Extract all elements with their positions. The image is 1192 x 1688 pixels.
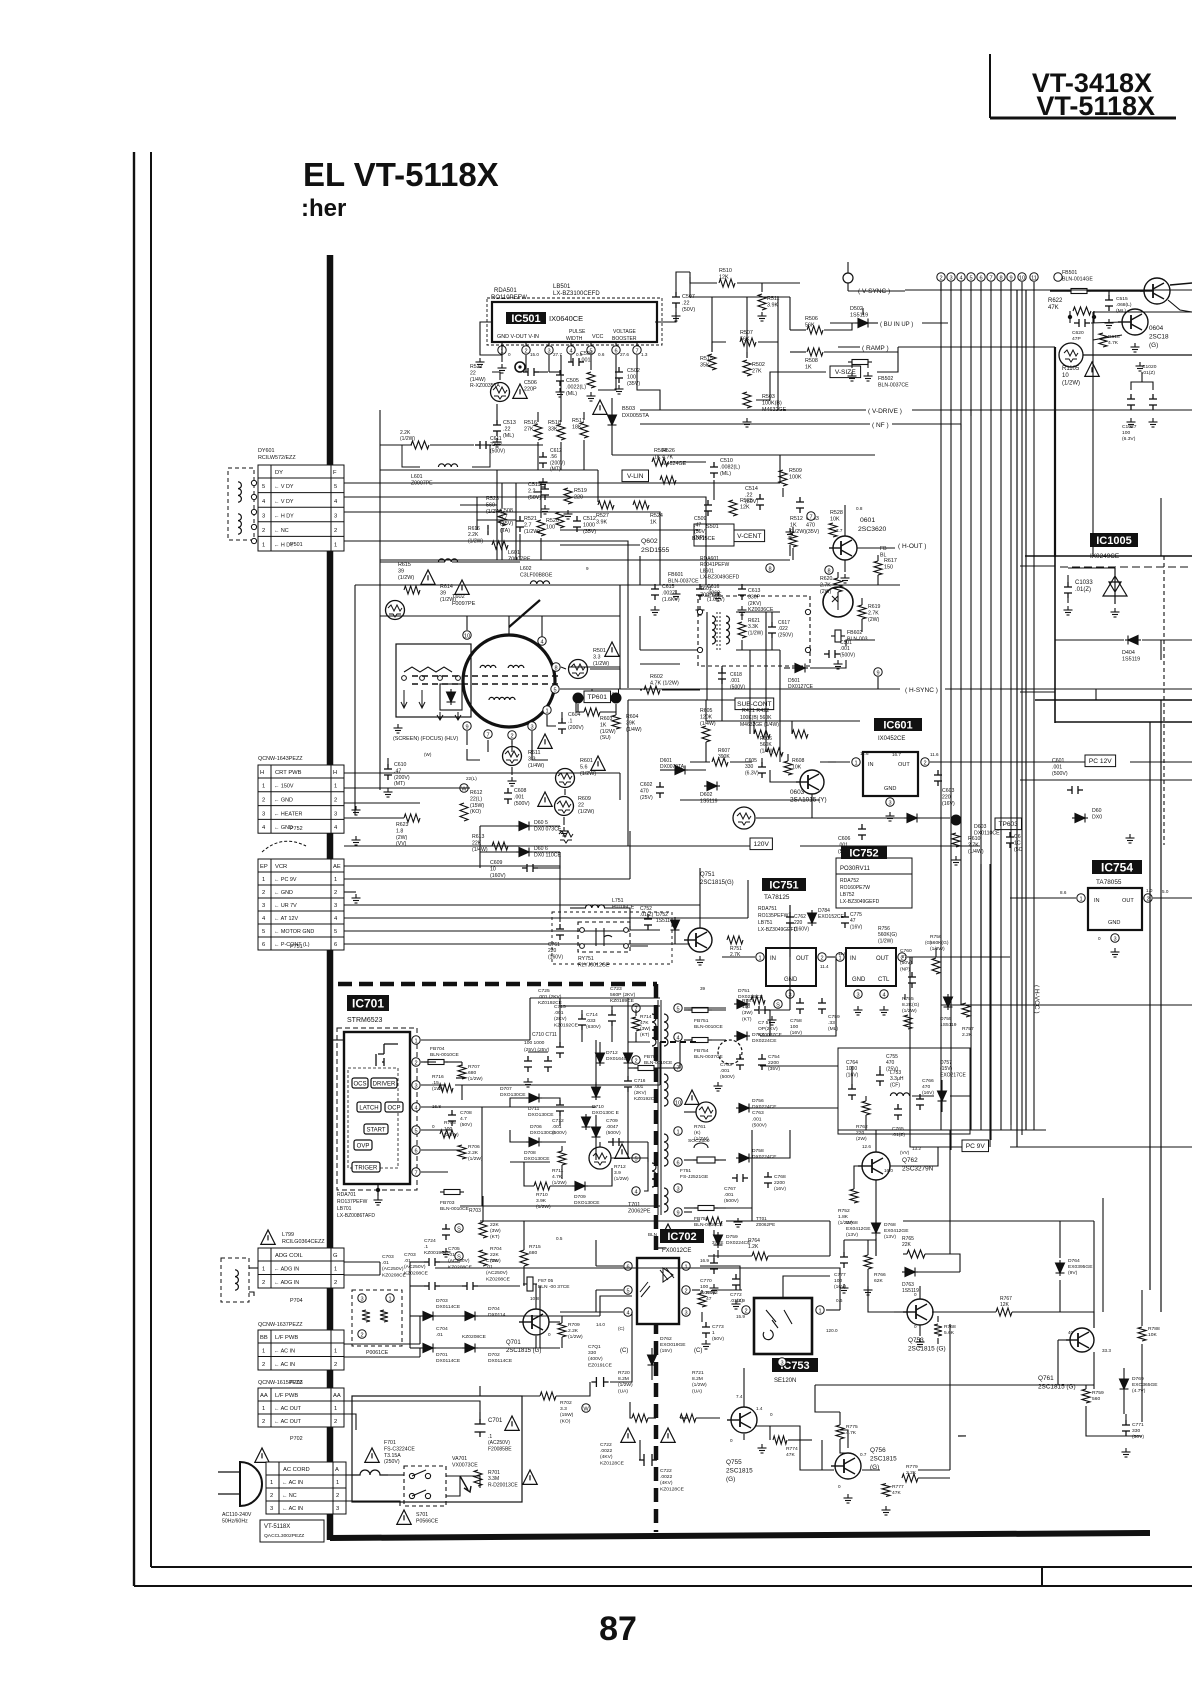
svg-text:GND: GND	[852, 977, 866, 983]
wire	[846, 640, 875, 646]
svg-text:BLN: BLN	[648, 1232, 657, 1237]
wire	[346, 1501, 400, 1506]
wire	[1093, 311, 1095, 323]
capacitor C772	[732, 1274, 740, 1290]
svg-text:87: 87	[599, 1610, 637, 1648]
svg-text:4: 4	[634, 1189, 637, 1195]
wire	[355, 584, 900, 586]
wire	[746, 297, 748, 358]
ground D1005	[1111, 608, 1120, 617]
focus taps	[402, 676, 407, 681]
svg-text:← AT 12V: ← AT 12V	[274, 916, 298, 922]
svg-text:0601: 0601	[860, 517, 875, 524]
ground reg1	[768, 1016, 777, 1025]
resistor R519	[564, 488, 572, 504]
ground R766	[864, 1286, 873, 1295]
resistor R707x	[456, 1077, 464, 1079]
svg-text:4: 4	[540, 639, 543, 645]
wire	[481, 1107, 483, 1206]
warning triangle AC	[255, 1448, 269, 1462]
p0061 pin2	[358, 1330, 366, 1339]
wire	[496, 470, 498, 560]
wire	[684, 1111, 696, 1113]
wire	[629, 908, 631, 930]
svg-text:EP: EP	[260, 864, 268, 870]
capacitor C515	[1105, 295, 1113, 311]
pwb thick bottom bar	[330, 1533, 1150, 1538]
wire	[920, 817, 950, 819]
wire	[862, 308, 864, 315]
ground C1020b	[1149, 418, 1158, 427]
wire	[713, 480, 715, 500]
IC702 pin6	[624, 1262, 632, 1271]
IC701 pin 5	[412, 1126, 420, 1135]
connector P701	[266, 1462, 346, 1514]
wire	[1055, 721, 1192, 723]
wire	[1141, 1290, 1143, 1326]
svg-text:16.9: 16.9	[700, 1258, 709, 1263]
wire	[1054, 556, 1056, 723]
resistor R502	[743, 360, 751, 376]
wire	[522, 1395, 540, 1397]
wire	[421, 1084, 446, 1086]
resistor R609b circle	[733, 807, 755, 829]
svg-text:100 1000: 100 1000	[524, 1040, 545, 1046]
wire	[639, 556, 641, 585]
diode D708	[526, 1138, 542, 1147]
svg-text:← AC IN: ← AC IN	[282, 1480, 303, 1486]
bus wire 4	[960, 282, 962, 1005]
svg-text:OCP: OCP	[387, 1106, 400, 1112]
wire	[903, 1220, 1060, 1222]
IC702 pin4	[624, 1308, 632, 1317]
wire	[560, 355, 562, 422]
T601 secondary	[726, 616, 730, 644]
resistor R611 circle	[503, 747, 522, 766]
ground right	[1136, 362, 1145, 371]
bus wire 6	[980, 282, 982, 1120]
svg-text:W: W	[583, 1406, 589, 1412]
wire	[344, 1261, 380, 1263]
ground R511	[758, 312, 767, 321]
svg-text:5: 5	[262, 929, 265, 935]
diode D768	[872, 1220, 881, 1236]
resistor R621	[738, 622, 746, 638]
wire	[560, 544, 640, 546]
transistor Q603	[796, 770, 824, 794]
svg-text:P702: P702	[290, 1436, 303, 1442]
T701 secondary pin 6	[674, 1158, 682, 1167]
reg1 pin1	[756, 953, 764, 962]
svg-text:IN: IN	[1094, 898, 1100, 904]
wire	[905, 289, 1192, 291]
capacitor C7 51	[754, 1006, 770, 1014]
svg-text:IC754: IC754	[1101, 860, 1133, 874]
svg-text:10.8: 10.8	[530, 1296, 539, 1301]
diode D763	[902, 1268, 918, 1277]
pin 9 hsync	[874, 668, 882, 677]
ground FB502b	[864, 372, 873, 381]
ferrite bead FB704	[428, 1060, 444, 1065]
svg-text:37CE: 37CE	[712, 1240, 724, 1245]
resistor R515	[708, 354, 716, 370]
ground C502	[615, 385, 624, 394]
svg-text:7: 7	[486, 732, 489, 738]
net label V-SIZE	[830, 366, 861, 378]
resistor R511	[758, 294, 766, 310]
wire	[435, 1268, 840, 1310]
svg-text:RO110PEFW: RO110PEFW	[491, 295, 527, 301]
test point TP601	[584, 691, 611, 703]
svg-text:5: 5	[334, 929, 337, 935]
wire	[511, 767, 513, 775]
svg-text:GND V-OUT V-IN: GND V-OUT V-IN	[497, 334, 539, 340]
IC701 pin 2	[412, 1058, 420, 1067]
bus wire 9	[1010, 282, 1012, 1125]
ground Q601	[841, 574, 850, 583]
wire	[844, 560, 846, 572]
ground reg2	[854, 1006, 863, 1015]
wire	[790, 351, 806, 353]
svg-text:A: A	[335, 1467, 339, 1473]
wire	[610, 1141, 648, 1143]
svg-text:8: 8	[999, 275, 1002, 281]
transformer T601 dashed box	[698, 596, 810, 666]
svg-text:2: 2	[360, 1332, 363, 1338]
capacitor C706	[462, 1282, 478, 1290]
wire	[421, 1039, 530, 1041]
capacitor C775	[841, 912, 849, 928]
warning triangle R609	[538, 792, 552, 806]
capacitor C710	[524, 1056, 532, 1072]
wire	[868, 1284, 894, 1312]
svg-text:120V: 120V	[753, 841, 769, 848]
wire	[1020, 691, 1055, 693]
wire	[542, 1141, 566, 1143]
wire	[715, 1159, 726, 1161]
capacitor C762	[786, 912, 794, 928]
transistor Q751	[684, 928, 712, 952]
wire	[538, 852, 560, 868]
diode D751	[734, 1000, 750, 1009]
svg-text:6: 6	[626, 1264, 629, 1270]
wire	[791, 721, 793, 734]
svg-text:( H-OUT ): ( H-OUT )	[898, 543, 926, 550]
svg-text:← NC: ← NC	[282, 1493, 297, 1499]
svg-text:3: 3	[856, 992, 859, 998]
svg-text:1: 1	[818, 1308, 821, 1314]
fuse F751	[697, 1157, 715, 1163]
svg-text:2: 2	[334, 890, 337, 896]
svg-text:TRIGER: TRIGER	[355, 1166, 378, 1172]
svg-text:CTL: CTL	[878, 977, 890, 983]
wire	[535, 1284, 537, 1309]
IC IC753 body	[754, 1298, 812, 1354]
wire	[659, 538, 661, 585]
svg-text:2SD1555: 2SD1555	[641, 547, 670, 554]
svg-text:2: 2	[939, 275, 942, 281]
diode D757	[938, 1088, 947, 1104]
wire	[1087, 290, 1144, 292]
wire	[344, 1356, 420, 1358]
wire	[466, 616, 468, 630]
wire	[756, 372, 826, 400]
svg-text:2: 2	[336, 1493, 339, 1499]
wire	[627, 1100, 629, 1130]
wire	[861, 598, 863, 605]
wire	[560, 1005, 660, 1007]
svg-text:← GND: ← GND	[274, 890, 293, 896]
wire	[561, 1146, 563, 1151]
wire	[344, 512, 660, 538]
IC501 pin 4 stub	[570, 342, 572, 345]
capacitor C7Q1	[591, 1377, 608, 1387]
svg-text:GND: GND	[784, 977, 798, 983]
svg-text:3: 3	[676, 1186, 679, 1192]
warning triangle T701	[661, 1224, 675, 1238]
ground C505	[556, 388, 565, 397]
IC IC752 label	[841, 846, 887, 859]
svg-text:BB: BB	[260, 1335, 268, 1341]
svg-text:L/F PWB: L/F PWB	[275, 1393, 298, 1399]
IC501 pin 7	[633, 346, 641, 355]
svg-text::her: :her	[301, 195, 346, 222]
svg-text:5: 5	[969, 275, 972, 281]
svg-text:9: 9	[586, 566, 589, 571]
svg-text:RCILG0364CEZZ: RCILG0364CEZZ	[282, 1239, 325, 1245]
IC754 pin1	[1077, 894, 1085, 903]
resistor R503 pot	[743, 392, 751, 408]
resistor R765	[907, 1250, 925, 1258]
capacitor C613	[738, 584, 746, 600]
wire	[756, 817, 904, 819]
svg-text:2: 2	[334, 1280, 337, 1286]
capacitor C724	[442, 1224, 450, 1240]
IC752 group header box	[836, 858, 912, 874]
svg-text:2: 2	[262, 1280, 265, 1286]
wire	[436, 1315, 462, 1317]
ferrite bead FB705	[527, 1277, 533, 1291]
ADG coil dashed box	[221, 1258, 249, 1302]
svg-text:H: H	[260, 770, 264, 776]
svg-text:7.4: 7.4	[736, 1394, 743, 1399]
damper internals	[832, 594, 838, 610]
svg-text:2: 2	[334, 1362, 337, 1368]
wire	[344, 1343, 420, 1345]
IC753 pin3	[778, 1358, 786, 1367]
warning triangle R501	[605, 642, 619, 656]
IC701 pin 7	[412, 1168, 420, 1177]
IC IC701 label	[347, 995, 389, 1011]
ground R519	[564, 510, 573, 519]
resistor R616	[492, 541, 508, 549]
wire	[1010, 897, 1076, 899]
svg-text:P704: P704	[290, 1298, 303, 1304]
resistor R527b	[598, 501, 614, 509]
wire	[615, 355, 617, 368]
wire	[620, 688, 900, 690]
resistor R524	[633, 501, 649, 509]
wire	[989, 864, 991, 1147]
svg-text:1: 1	[334, 543, 337, 549]
svg-text:120.0: 120.0	[826, 1328, 838, 1333]
svg-text:L799: L799	[282, 1232, 294, 1238]
IC501 pin 2 stub	[525, 342, 527, 345]
svg-text:VCR: VCR	[275, 864, 287, 870]
wire	[779, 455, 781, 483]
flyback pin 5	[551, 685, 559, 694]
wire	[1060, 1220, 1094, 1222]
IC IC753 label	[772, 1358, 818, 1372]
svg-text:IC751: IC751	[769, 879, 798, 891]
wire	[510, 1098, 526, 1107]
wire	[1016, 290, 1018, 1147]
AC plug	[240, 1462, 262, 1506]
svg-text:40: 40	[1068, 1330, 1074, 1335]
wire	[692, 1289, 700, 1291]
wire	[1093, 1352, 1095, 1389]
wire	[855, 290, 857, 292]
wire	[890, 1147, 938, 1166]
IC702 pin3	[682, 1308, 690, 1317]
wire	[525, 355, 527, 372]
capacitor C512	[573, 516, 581, 532]
resistor R774	[773, 1436, 787, 1444]
svg-text:11.6: 11.6	[838, 951, 847, 956]
wire	[960, 424, 962, 430]
svg-text:0.5: 0.5	[556, 1236, 563, 1241]
svg-text:C7542200(35V): C7542200(35V)	[768, 1054, 780, 1072]
wire	[560, 529, 700, 531]
transistor Q753	[903, 1299, 933, 1325]
flyback dash core 2	[412, 683, 562, 685]
wire	[935, 948, 937, 957]
wire	[480, 845, 492, 847]
svg-text:2: 2	[524, 348, 527, 354]
wire	[578, 704, 584, 712]
svg-text:OVP: OVP	[357, 1144, 370, 1150]
capacitor C514	[756, 494, 764, 510]
svg-text:4: 4	[959, 275, 962, 281]
IC501 pin 5 stub	[590, 342, 592, 345]
diode D710	[582, 1114, 591, 1130]
capacitor C758	[796, 998, 804, 1014]
op-amp IC501 label	[506, 312, 546, 325]
wire	[523, 1221, 525, 1250]
capacitor C502	[615, 367, 623, 383]
ground pin1	[498, 364, 507, 373]
svg-text:1: 1	[262, 1406, 265, 1412]
resistor R504	[652, 458, 668, 466]
svg-text:IC701: IC701	[352, 996, 384, 1010]
wire	[711, 297, 713, 352]
wire	[840, 1439, 848, 1453]
transistor Q755	[727, 1407, 757, 1433]
svg-text:← PC 9V: ← PC 9V	[274, 877, 297, 883]
capacitor C508	[516, 516, 524, 532]
resistor R518	[557, 424, 565, 440]
wire	[537, 442, 539, 470]
wire	[854, 1166, 862, 1189]
T701 primary pin 2	[632, 1056, 640, 1065]
connector P751	[258, 859, 344, 950]
wire	[560, 688, 620, 690]
diode D758	[736, 1154, 752, 1163]
capacitor C764	[848, 1084, 856, 1100]
wire	[674, 933, 676, 944]
resistor R711	[558, 1151, 566, 1165]
svg-text:1: 1	[334, 877, 337, 883]
resistor R709	[558, 1323, 566, 1337]
wire	[615, 704, 617, 712]
wire	[461, 1085, 463, 1100]
wire	[460, 504, 497, 506]
wire	[760, 1065, 838, 1067]
wire	[1160, 498, 1162, 556]
capacitor C616	[696, 584, 704, 600]
wire	[690, 761, 710, 763]
svg-text:3: 3	[262, 513, 265, 519]
wire	[655, 305, 676, 322]
IC601 pin 3	[886, 798, 894, 807]
wire	[949, 1324, 951, 1470]
svg-text:IX0452CE: IX0452CE	[878, 736, 905, 742]
svg-text:VT-5118X: VT-5118X	[1036, 91, 1155, 121]
wire	[730, 761, 752, 763]
svg-text:4: 4	[569, 348, 572, 354]
wire	[800, 845, 980, 847]
wire	[792, 527, 794, 533]
wire	[1055, 639, 1124, 641]
net label V-LIN	[622, 470, 649, 482]
wire	[479, 1412, 481, 1422]
IC501 pin 1	[498, 346, 506, 355]
capacitor C504	[568, 358, 584, 366]
transistor Q605	[1140, 278, 1170, 304]
wire	[511, 741, 513, 744]
diode D701	[420, 1344, 436, 1353]
wire	[532, 740, 548, 760]
svg-text:1: 1	[684, 1264, 687, 1270]
svg-text:IX0640CE: IX0640CE	[549, 314, 583, 323]
svg-text:7: 7	[414, 1170, 417, 1176]
resistor R787	[751, 996, 765, 1004]
capacitor C615	[651, 584, 659, 600]
wire	[837, 572, 839, 578]
capacitor C606	[858, 824, 866, 840]
wire	[1095, 689, 1097, 700]
wire	[556, 1382, 590, 1396]
pin 7 deflection	[807, 512, 815, 521]
wire	[1125, 1414, 1127, 1420]
wire	[970, 410, 972, 416]
wire	[639, 616, 641, 650]
wire	[635, 1032, 637, 1042]
wire	[627, 1066, 629, 1076]
warning triangle R712	[615, 1144, 629, 1158]
wire	[344, 1401, 480, 1420]
svg-text:← AC IN: ← AC IN	[282, 1506, 303, 1512]
T701 primary pin 5	[632, 1154, 640, 1163]
net label 120V	[750, 838, 772, 850]
svg-text:B0015CE: B0015CE	[692, 536, 715, 542]
resistor R706	[458, 1145, 466, 1159]
svg-text:1: 1	[334, 1348, 337, 1354]
wire	[379, 1262, 381, 1275]
resistor R623	[404, 814, 420, 822]
wire	[980, 864, 982, 1130]
inductor L602	[530, 581, 549, 584]
